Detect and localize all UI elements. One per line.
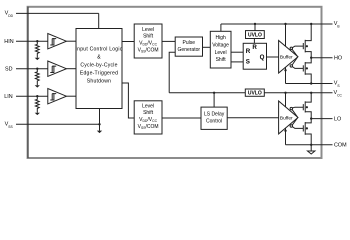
wire LS delay to low buffer bbox=[227, 117, 278, 119]
ground symbol COM bbox=[310, 145, 312, 151]
svg-text:Shutdown: Shutdown bbox=[87, 79, 111, 85]
inverter bubble lower gate bbox=[290, 65, 292, 67]
wire logic to upper level shift bbox=[122, 41, 134, 43]
svg-text:VSS: VSS bbox=[5, 122, 14, 129]
svg-text:R: R bbox=[252, 44, 257, 51]
VB supply rail bbox=[221, 23, 333, 25]
schmitt trigger buffer LIN bbox=[48, 89, 67, 104]
wire HV shift to latch S bbox=[231, 61, 243, 63]
pin VS bbox=[286, 83, 333, 85]
inverter bubble lower gate low side bbox=[290, 125, 292, 127]
pin HIN bbox=[16, 40, 48, 42]
svg-text:Edge-Triggered: Edge-Triggered bbox=[80, 71, 118, 77]
pin COM bbox=[286, 144, 333, 146]
wire apex to upper bubble low side bbox=[292, 110, 297, 117]
svg-text:Buffer: Buffer bbox=[280, 55, 293, 61]
svg-text:S: S bbox=[246, 58, 250, 65]
mosfet M1 (VB to HO) bbox=[302, 43, 304, 49]
wire bubble to M1 gate bbox=[292, 46, 303, 48]
node HIN junction bbox=[36, 40, 38, 42]
wire logic to lower level shift bbox=[122, 83, 134, 118]
svg-text:Cycle-by-Cycle: Cycle-by-Cycle bbox=[80, 63, 117, 69]
resistor pull-down on SD bbox=[35, 69, 39, 86]
resistor pull-down on LIN bbox=[35, 96, 39, 113]
wire VCC rail to LS delay bbox=[213, 93, 215, 107]
svg-text:LS Delay: LS Delay bbox=[204, 112, 225, 118]
svg-text:Shift: Shift bbox=[216, 57, 227, 63]
svg-text:UVLO: UVLO bbox=[248, 90, 262, 96]
buffer low side bbox=[279, 101, 298, 134]
svg-text:Shift: Shift bbox=[143, 33, 154, 39]
svg-text:VSS/COM: VSS/COM bbox=[138, 124, 159, 130]
node VB-buffer junction bbox=[284, 23, 286, 25]
node on VS drop bbox=[284, 69, 286, 71]
level shift block (high side) bbox=[134, 24, 162, 58]
svg-text:Generator: Generator bbox=[178, 47, 201, 53]
mosfet M2 (HO to VS) bbox=[302, 65, 304, 71]
wire apex to lower bubble low side bbox=[292, 118, 297, 125]
wire VCC rail riser to pulse generator bbox=[169, 52, 175, 93]
schmitt trigger buffer HIN bbox=[48, 34, 67, 49]
wire logic block to VSS bbox=[99, 109, 101, 131]
pin HO bbox=[311, 57, 332, 59]
svg-text:HO: HO bbox=[334, 56, 342, 62]
svg-text:UVLO: UVLO bbox=[248, 32, 262, 38]
svg-text:Pulse: Pulse bbox=[183, 40, 196, 46]
wire VB rail to UVLO bbox=[254, 24, 256, 31]
node VCC-buffer junction bbox=[284, 92, 286, 94]
ground arrow below SD resistor bbox=[35, 85, 40, 87]
VCC supply rail bbox=[169, 92, 245, 94]
IC outer boundary left edge bbox=[27, 7, 29, 158]
LS delay control block bbox=[201, 107, 227, 129]
UVLO block (high side) bbox=[246, 31, 265, 39]
IC outer boundary bbox=[28, 7, 322, 158]
pin LO bbox=[311, 118, 332, 120]
wire bubble to M4 gate bbox=[292, 127, 303, 129]
level shift block (low side) bbox=[134, 101, 162, 134]
svg-text:VDD: VDD bbox=[5, 11, 14, 18]
svg-text:VSS/COM: VSS/COM bbox=[138, 47, 159, 53]
node VCC-mosfet junction bbox=[310, 92, 312, 94]
svg-text:VCC: VCC bbox=[334, 90, 343, 97]
pin LIN bbox=[16, 95, 48, 97]
pin VSS bbox=[16, 123, 100, 125]
node VSS junction bbox=[98, 123, 100, 125]
node VB-UVLO junction bbox=[254, 23, 256, 25]
resistor pull-down on HIN bbox=[35, 41, 39, 58]
wire bubble to M3 gate bbox=[292, 106, 303, 109]
inverter bubble upper gate bbox=[290, 47, 292, 49]
pin SD bbox=[16, 68, 48, 70]
svg-text:Input Control Logic: Input Control Logic bbox=[76, 47, 123, 53]
ground arrow below HIN resistor bbox=[35, 58, 40, 60]
wire LIN buffer to logic bbox=[66, 95, 76, 97]
svg-text:VS: VS bbox=[334, 81, 341, 88]
svg-text:HIN: HIN bbox=[4, 39, 13, 45]
high voltage level shift block bbox=[210, 31, 231, 68]
buffer high side bbox=[279, 41, 298, 74]
svg-text:Level: Level bbox=[215, 50, 227, 56]
svg-text:LO: LO bbox=[334, 117, 341, 123]
svg-text:R: R bbox=[246, 48, 251, 55]
wire VB to buffer top bbox=[285, 24, 287, 46]
wire latch Q to buffer bbox=[267, 56, 279, 58]
wire apex to upper bubble bbox=[292, 49, 297, 56]
svg-text:Control: Control bbox=[206, 119, 222, 125]
wire apex to lower bubble bbox=[292, 57, 297, 65]
ground arrow below LIN resistor bbox=[35, 113, 40, 115]
wire HV shift to latch R bbox=[231, 51, 243, 53]
wire level shift to pulse generator bbox=[162, 40, 175, 42]
pin VDD bbox=[16, 12, 99, 14]
svg-text:SD: SD bbox=[5, 67, 13, 73]
node SD junction bbox=[36, 68, 38, 70]
input control logic block bbox=[76, 29, 122, 109]
node LIN junction bbox=[36, 95, 38, 97]
svg-text:High: High bbox=[215, 35, 226, 41]
inverter bubble upper gate low side bbox=[290, 107, 292, 109]
SR latch U1 bbox=[243, 43, 266, 69]
schmitt trigger buffer SD bbox=[48, 61, 67, 76]
svg-text:COM: COM bbox=[334, 143, 347, 149]
svg-text:Buffer: Buffer bbox=[280, 115, 293, 121]
wire buffer bottom to VS bbox=[285, 67, 287, 83]
wire SD buffer to logic bbox=[66, 68, 76, 70]
svg-text:Shift: Shift bbox=[143, 110, 154, 116]
wire lower level shift to LS delay bbox=[162, 117, 201, 119]
wire low buffer bottom to COM bbox=[285, 128, 287, 145]
mosfet M4 (LO to COM) bbox=[302, 125, 304, 131]
wire UVLO to latch R bbox=[253, 39, 255, 44]
wire VCC to low buffer top bbox=[285, 93, 287, 107]
UVLO block (low side) bbox=[245, 89, 264, 96]
svg-text:Level: Level bbox=[142, 27, 154, 33]
svg-text:Level: Level bbox=[142, 103, 154, 109]
wire VB rail to HV level shift bbox=[220, 24, 222, 31]
svg-text:LIN: LIN bbox=[4, 94, 12, 100]
svg-text:VB: VB bbox=[334, 21, 341, 28]
wire pulse gen to HV level shift bbox=[203, 46, 211, 48]
svg-text:Q: Q bbox=[260, 54, 265, 61]
node VCC-LSdelay junction bbox=[213, 92, 215, 94]
node VB-mosfet junction bbox=[310, 23, 312, 25]
svg-text:Voltage: Voltage bbox=[212, 43, 229, 49]
wire HIN buffer to logic bbox=[66, 40, 76, 42]
node on COM drop bbox=[284, 130, 286, 132]
pulse generator block bbox=[175, 37, 202, 56]
mosfet M3 (VCC to LO) bbox=[302, 104, 304, 110]
wire bubble to M2 gate bbox=[292, 67, 303, 69]
ground arrow below VSS node bbox=[97, 131, 102, 134]
wire VDD to logic block bbox=[98, 13, 100, 28]
svg-text:&: & bbox=[97, 55, 101, 61]
